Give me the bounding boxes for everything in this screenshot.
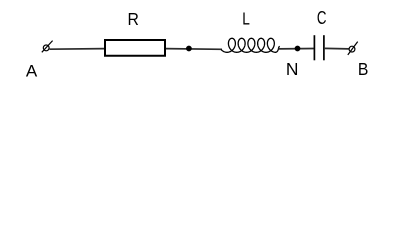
capacitor C: [314, 35, 324, 60]
svg-text:R: R: [128, 9, 139, 29]
svg-text:C: C: [317, 7, 327, 28]
inductor L: [221, 38, 279, 52]
wire A to R: [49, 48, 104, 51]
wire L to C: [279, 48, 314, 50]
wire R to L: [166, 48, 222, 51]
resistor R: [105, 40, 165, 56]
terminal A: [42, 41, 53, 53]
svg-text:L: L: [242, 9, 250, 29]
svg-text:A: A: [26, 61, 38, 80]
svg-text:B: B: [358, 59, 369, 79]
node N dot: [295, 46, 301, 52]
terminal B: [348, 42, 358, 55]
wire C to B: [325, 47, 349, 50]
junction dot: [186, 46, 192, 52]
svg-text:N: N: [286, 59, 299, 79]
